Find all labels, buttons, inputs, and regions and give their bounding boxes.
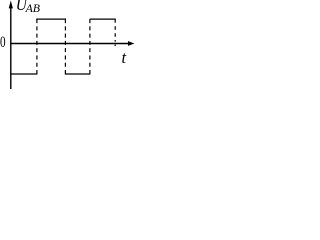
dashed transition edge 2 <box>64 19 66 74</box>
waveform low segment 2 <box>65 73 90 75</box>
y-axis arrowhead <box>9 1 13 9</box>
waveform low segment 1 <box>10 73 37 75</box>
y-axis (U_AB axis) <box>10 5 12 89</box>
x-axis (t axis) <box>10 43 129 45</box>
waveform high segment 2 <box>90 18 116 20</box>
svg-text:0: 0 <box>0 33 6 50</box>
dashed transition edge 4 <box>114 19 116 46</box>
waveform high segment 1 <box>36 18 66 20</box>
dashed transition edge 1 <box>36 19 38 74</box>
svg-text:AB: AB <box>25 1 40 15</box>
dashed transition edge 3 <box>89 19 91 74</box>
svg-text:t: t <box>122 48 127 67</box>
x-axis arrowhead <box>128 41 134 46</box>
